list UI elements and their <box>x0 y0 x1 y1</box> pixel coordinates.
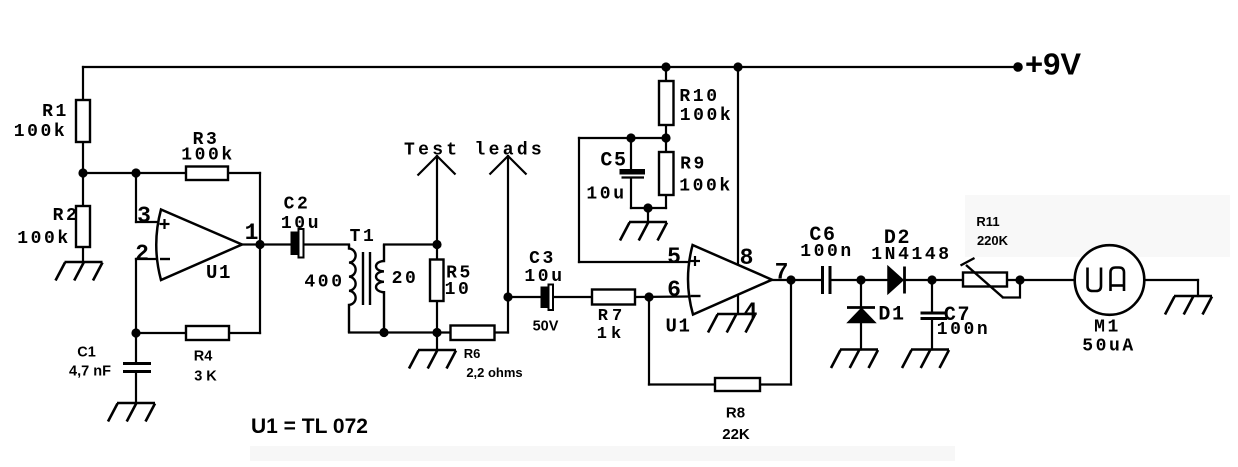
wire R7 to op2 pin6 <box>635 295 688 298</box>
svg-text:R7: R7 <box>598 307 626 326</box>
wire op1 pin3 horizontal <box>136 221 160 223</box>
wire C5 bottom lead <box>630 178 632 208</box>
ground below C7 <box>902 350 949 369</box>
node dot R5 top <box>432 240 441 249</box>
node dot D2/C7 <box>927 275 936 284</box>
ground below C1 <box>108 403 155 422</box>
capacitor C2 (electrolytic) <box>291 229 304 258</box>
svg-text:100n: 100n <box>800 242 854 262</box>
wire R2 bottom to ground <box>82 247 84 262</box>
svg-text:400: 400 <box>304 273 344 293</box>
transformer T1 core <box>363 252 370 305</box>
node dot rail/pin8 <box>733 62 742 71</box>
wire R1 bottom to node A <box>82 142 84 173</box>
wire R8 left to pin6 vertical <box>649 383 715 385</box>
wire R11 wiper bottom <box>1003 280 1020 298</box>
op-amp U1b <box>688 245 772 315</box>
trimmer resistor R11 body <box>963 273 1007 287</box>
wire C7 bottom lead <box>931 320 933 350</box>
wire R4 right <box>229 332 260 334</box>
svg-text:1N4148: 1N4148 <box>871 245 951 265</box>
resistor R7 <box>592 290 635 305</box>
svg-text:+9V: +9V <box>1025 47 1081 82</box>
test lead arrow 1 <box>418 156 456 176</box>
transformer T1 secondary winding <box>376 245 384 333</box>
node dot C1/R4 <box>131 328 140 337</box>
wire op2 pin4 vertical <box>737 295 739 314</box>
test lead arrow 2 <box>490 156 527 175</box>
wire R9 bottom lead <box>665 195 667 208</box>
wire meter to ground <box>1145 279 1199 281</box>
meter M1 circle <box>1075 245 1145 315</box>
wire ground stub C5/R9 <box>647 208 649 222</box>
resistor R1 <box>76 100 90 142</box>
svg-text:U1: U1 <box>665 316 691 338</box>
op-amp U1a minus sign <box>160 258 170 260</box>
node dot R11 wiper <box>1015 275 1024 284</box>
svg-text:R8: R8 <box>726 405 745 422</box>
svg-text:10u: 10u <box>524 267 564 287</box>
svg-text:50uA: 50uA <box>1082 337 1136 357</box>
svg-text:100k: 100k <box>17 229 71 249</box>
svg-text:4,7 nF: 4,7 nF <box>69 364 111 380</box>
capacitor C7 plates <box>921 313 948 319</box>
node dot C6/D1 <box>856 275 865 284</box>
svg-text:10u: 10u <box>586 185 626 205</box>
node dot test lead 2 / C3 <box>503 292 512 301</box>
resistor R6 <box>451 326 495 341</box>
svg-text:100k: 100k <box>181 146 235 166</box>
op-amp U1a <box>156 210 242 281</box>
wire C5 top lead <box>630 138 632 169</box>
svg-text:7: 7 <box>775 260 789 286</box>
svg-text:R9: R9 <box>680 155 707 175</box>
svg-text:U1: U1 <box>206 262 232 284</box>
svg-text:Test leads: Test leads <box>404 141 545 161</box>
wire R11 right to meter <box>1007 279 1075 281</box>
svg-text:R6: R6 <box>464 346 481 361</box>
wire test lead 1 vertical <box>436 156 438 245</box>
op-amp U1b plus sign <box>690 256 700 266</box>
svg-text:8: 8 <box>740 245 754 271</box>
svg-text:2,2 ohms: 2,2 ohms <box>466 365 522 380</box>
trimmer R11 diagonal wiper <box>961 258 1004 298</box>
svg-text:1k: 1k <box>597 325 625 344</box>
ground op2 pin4 <box>708 314 755 333</box>
wire C1 top lead <box>135 333 137 362</box>
wire feedback down from output <box>790 280 792 385</box>
wire D1 top lead <box>860 280 862 307</box>
ground below R2 <box>56 262 103 281</box>
wire pin6 node vertical <box>648 297 650 385</box>
svg-text:4: 4 <box>744 299 758 325</box>
capacitor C6 plates <box>823 266 831 294</box>
svg-text:22K: 22K <box>722 426 750 443</box>
svg-text:M1: M1 <box>1094 318 1121 338</box>
ground below C5/R9 <box>620 222 667 241</box>
svg-text:C5: C5 <box>600 150 627 173</box>
node dot op2 output <box>786 275 795 284</box>
wire pin5 box top horizontal <box>579 137 666 139</box>
wire node B to R4 <box>136 332 186 334</box>
wire C7 top lead <box>931 280 933 312</box>
svg-text:1: 1 <box>245 220 259 246</box>
wire feedback vertical R3/R4 <box>259 173 261 333</box>
svg-text:3 K: 3 K <box>194 369 217 385</box>
wire R9 top lead <box>665 138 667 152</box>
node dot pin3 branch <box>131 168 140 177</box>
resistor R3 <box>186 167 228 181</box>
wire C1 bottom lead <box>135 373 137 403</box>
wire ground stub under R5 node <box>436 333 438 351</box>
resistor R10 <box>659 81 674 125</box>
wire test lead 2 vertical <box>507 156 509 297</box>
svg-text:10u: 10u <box>281 214 321 234</box>
meter M1 UA marking <box>1088 268 1125 292</box>
wire op2 output <box>772 279 822 281</box>
wire R5 bottom lead <box>436 301 438 333</box>
svg-text:100k: 100k <box>14 122 68 142</box>
svg-text:R4: R4 <box>194 349 213 365</box>
capacitor C1 plates <box>123 364 151 372</box>
svg-text:C2: C2 <box>284 195 311 215</box>
svg-text:R2: R2 <box>53 206 80 226</box>
svg-text:10: 10 <box>445 280 472 300</box>
svg-text:D1: D1 <box>878 304 905 327</box>
svg-text:6: 6 <box>667 277 681 303</box>
node dot R5 bottom <box>432 328 441 337</box>
svg-text:20: 20 <box>392 269 419 289</box>
wire pin5 box left vertical <box>578 138 580 262</box>
wire op1 output <box>242 243 291 245</box>
node dot C5/R9 bottom <box>643 203 652 212</box>
svg-text:T1: T1 <box>350 227 377 247</box>
node dot C5 top <box>626 133 635 142</box>
svg-text:R11: R11 <box>976 214 999 229</box>
diode D1 (shunt, cathode up) <box>847 308 875 323</box>
node dot R1/R2 <box>78 168 87 177</box>
wire R3 right to feedback vertical <box>228 172 260 174</box>
svg-text:R1: R1 <box>42 102 69 122</box>
node dot rail end +9V <box>1013 62 1023 72</box>
node dot op1 output <box>255 240 264 249</box>
svg-text:220K: 220K <box>977 233 1009 248</box>
resistor R9 <box>659 152 674 195</box>
svg-text:50V: 50V <box>533 319 559 335</box>
wire C6 right to D1 node <box>832 279 888 281</box>
svg-text:100n: 100n <box>937 320 991 340</box>
node dot pin6 <box>644 292 653 301</box>
wire +9V top rail <box>83 66 1018 68</box>
svg-text:R10: R10 <box>679 87 719 107</box>
wire T1 bottom <box>349 331 450 333</box>
svg-text:5: 5 <box>667 244 681 270</box>
wire C5/R9 bottom node <box>631 207 666 209</box>
resistor R2 <box>76 206 90 247</box>
op-amp U1b minus sign <box>691 295 701 297</box>
wire D1 bottom lead <box>860 322 862 350</box>
wire op2 pin8 power vertical <box>737 67 739 264</box>
ground below D1 <box>831 350 878 369</box>
ground right of meter <box>1165 296 1212 315</box>
node dot T1 secondary bottom <box>379 328 388 337</box>
svg-text:100k: 100k <box>680 106 734 126</box>
wire R2 top <box>82 173 84 206</box>
faint background tint patches <box>250 446 955 461</box>
wire C3 to R7 <box>552 296 592 298</box>
wire node to C3 <box>508 296 541 298</box>
svg-text:100k: 100k <box>679 177 733 197</box>
wire R10 bottom lead <box>665 125 667 138</box>
wire T1 secondary top to node <box>384 243 437 245</box>
svg-text:C3: C3 <box>529 249 556 269</box>
svg-text:2: 2 <box>135 241 149 267</box>
capacitor C3 (electrolytic) <box>541 285 554 311</box>
node dot R9/R10 <box>661 133 670 142</box>
wire feedback to R8 right <box>760 383 791 385</box>
svg-text:U1 = TL 072: U1 = TL 072 <box>251 415 368 438</box>
op-amp U1a plus sign <box>160 219 170 229</box>
node dot rail/R10 <box>661 62 670 71</box>
transformer T1 primary winding <box>349 245 356 333</box>
wire R1 top <box>82 67 84 100</box>
svg-text:C1: C1 <box>77 345 96 361</box>
wire pin5 box bottom <box>579 261 688 263</box>
wire op1 pin2 horizontal <box>136 258 160 260</box>
wire C2 to T1 <box>303 243 349 245</box>
wire R10 top lead <box>665 67 667 81</box>
svg-text:3: 3 <box>137 203 151 229</box>
wire R5 top lead <box>436 245 438 260</box>
resistor R8 <box>715 378 760 391</box>
wire op1 pin2 vertical down <box>135 259 137 333</box>
wire op1 pin3 vertical <box>135 173 137 222</box>
capacitor C5 plates <box>620 169 646 178</box>
wire D2 cathode to C7 node <box>907 279 964 281</box>
diode D2 (series, 1N4148) <box>888 267 905 294</box>
wire node A horizontal <box>83 172 186 174</box>
ground below R5/T1 node <box>409 350 456 369</box>
wire R6 right to test lead 2 <box>495 331 509 333</box>
resistor R4 <box>186 326 229 340</box>
resistor R5 <box>430 260 444 302</box>
